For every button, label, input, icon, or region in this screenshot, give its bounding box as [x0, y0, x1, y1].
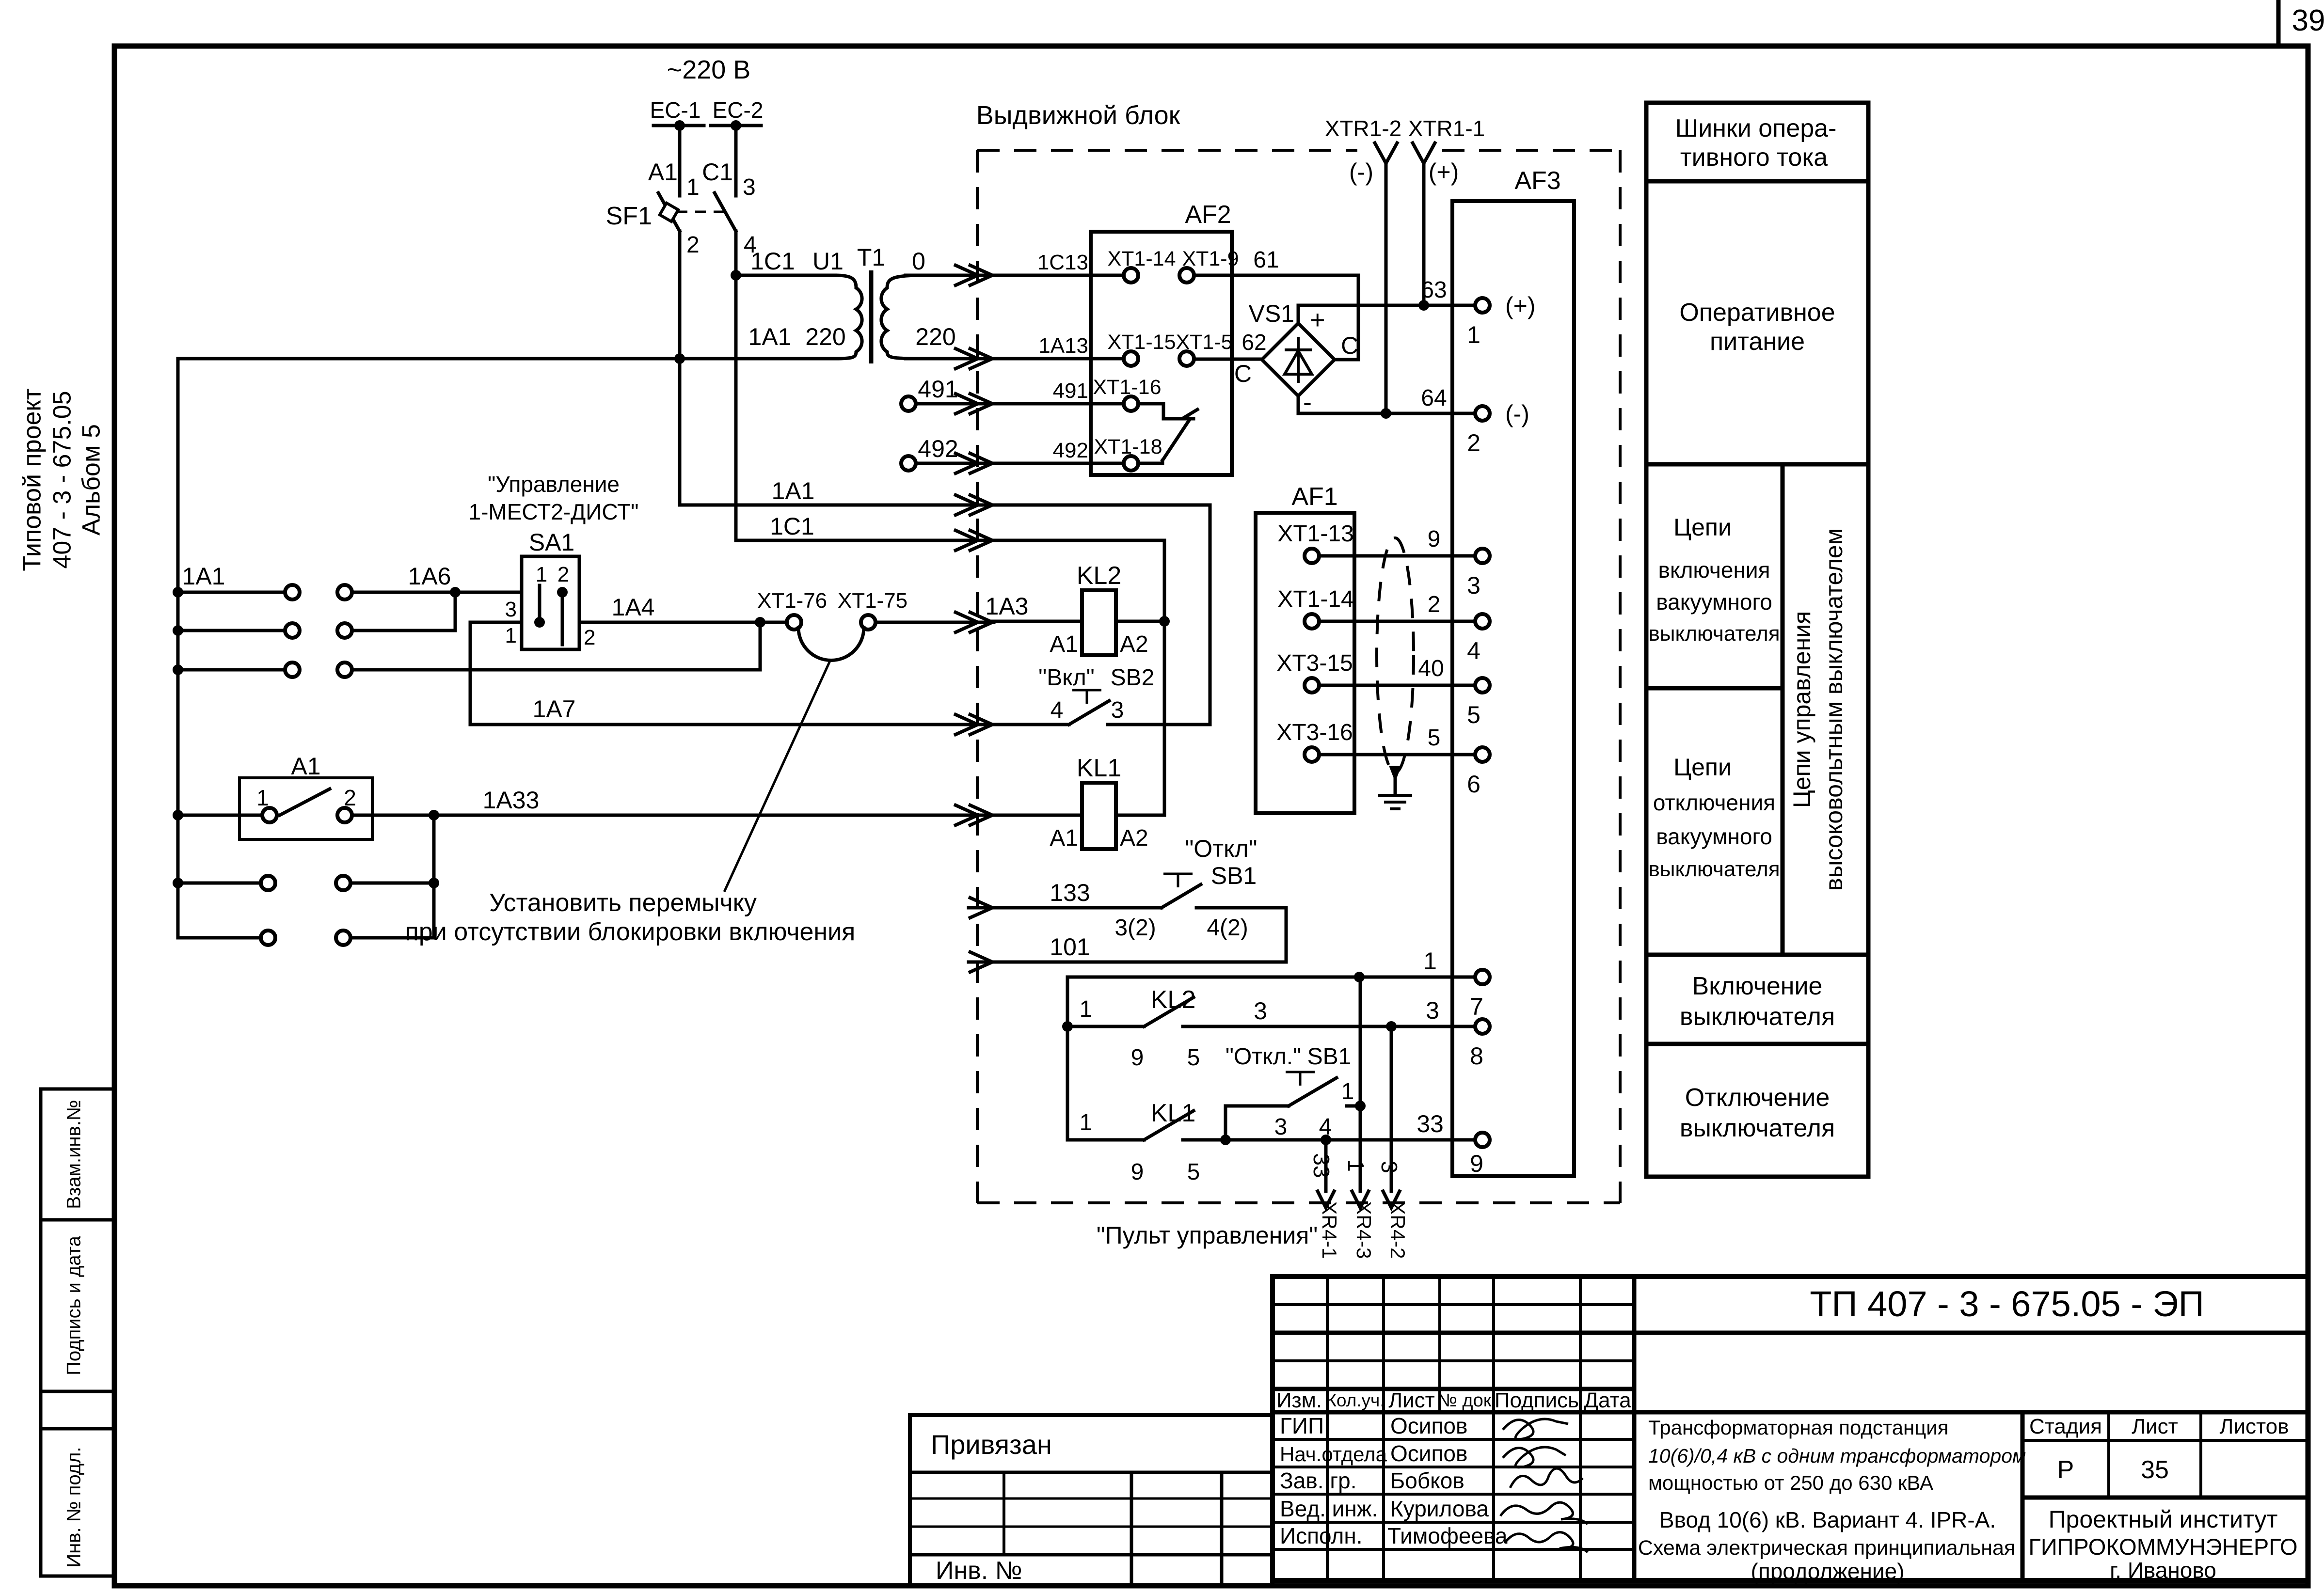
- svg-text:1: 1: [536, 563, 547, 586]
- wire KL1 A2: [1116, 814, 1164, 817]
- button SB2 head: [1072, 690, 1101, 704]
- svg-text:(продолжение): (продолжение): [1751, 1559, 1905, 1584]
- svg-text:Нач.отдела: Нач.отдела: [1280, 1443, 1387, 1466]
- svg-text:220: 220: [915, 323, 955, 350]
- svg-text:ТП 407 - 3 - 675.05 - ЭП: ТП 407 - 3 - 675.05 - ЭП: [1810, 1284, 2204, 1324]
- svg-text:1А1: 1А1: [772, 477, 815, 505]
- svg-text:Выдвижной блок: Выдвижной блок: [976, 101, 1180, 130]
- svg-text:XR4-1: XR4-1: [1318, 1201, 1341, 1259]
- svg-text:Осипов: Осипов: [1390, 1413, 1467, 1438]
- svg-text:ГИПРОКОММУНЭНЕРГО: ГИПРОКОММУНЭНЕРГО: [2028, 1534, 2297, 1560]
- svg-text:С: С: [1341, 332, 1358, 359]
- wire pole A down: [678, 231, 682, 505]
- svg-text:Осипов: Осипов: [1390, 1441, 1467, 1466]
- svg-text:Курилова: Курилова: [1390, 1496, 1489, 1521]
- net1 row wire: [1067, 976, 1475, 979]
- wire XT1-18 stub: [1138, 462, 1162, 465]
- svg-text:С: С: [1234, 360, 1252, 387]
- block AF3: [1452, 201, 1574, 1176]
- svg-text:ХТ1-16: ХТ1-16: [1093, 376, 1161, 399]
- svg-text:№ док.: № док.: [1437, 1390, 1496, 1411]
- svg-text:AF1: AF1: [1291, 483, 1337, 511]
- terminal 491: [901, 396, 916, 411]
- svg-text:9: 9: [1131, 1045, 1144, 1071]
- terminal 492: [901, 456, 916, 471]
- svg-text:"Откл": "Откл": [1185, 835, 1258, 862]
- 1C1 net vertical: [1163, 540, 1166, 815]
- page number cell line: [2276, 0, 2281, 46]
- svg-text:AF3: AF3: [1514, 167, 1560, 195]
- terminal XT1-9: [1179, 268, 1194, 283]
- terminal 1 plus: [1475, 298, 1490, 313]
- aux contact in AF2: [1138, 404, 1194, 419]
- svg-text:ЕС-2: ЕС-2: [713, 97, 764, 123]
- signature squiggles: [1503, 1419, 1568, 1439]
- corner 1C1 wire to vertical: [992, 539, 1164, 542]
- terminal XT1-15: [1124, 351, 1138, 366]
- svg-text:1: 1: [1423, 947, 1437, 975]
- svg-text:1: 1: [1080, 1110, 1093, 1136]
- svg-text:ХТ1-14: ХТ1-14: [1107, 247, 1176, 270]
- wire 101: [969, 961, 1286, 964]
- svg-text:6: 6: [1467, 771, 1480, 798]
- svg-text:407 - 3 - 675.05: 407 - 3 - 675.05: [48, 391, 77, 568]
- svg-text:9: 9: [1131, 1159, 1144, 1185]
- right info table frame: [1646, 103, 1868, 1177]
- svg-text:39: 39: [2292, 4, 2324, 37]
- svg-text:Исполн.: Исполн.: [1280, 1523, 1363, 1548]
- svg-text:3: 3: [505, 598, 517, 621]
- svg-text:33: 33: [1417, 1110, 1444, 1137]
- block AF2: [1091, 232, 1232, 475]
- svg-text:33: 33: [1309, 1153, 1334, 1178]
- wire A1 phase down to SF1: [678, 126, 682, 196]
- SB1 lower blade: [1289, 1078, 1337, 1106]
- svg-text:XR4-2: XR4-2: [1386, 1201, 1409, 1259]
- wire 492: [916, 462, 994, 465]
- svg-text:выключателя: выключателя: [1648, 622, 1780, 646]
- terminal 6: [1475, 747, 1490, 762]
- wire 1C1 to transformer: [736, 274, 835, 277]
- row2 contact pair: [173, 625, 183, 636]
- svg-text:выключателя: выключателя: [1680, 1114, 1835, 1142]
- svg-text:61: 61: [1253, 247, 1279, 273]
- svg-text:А1: А1: [291, 753, 320, 780]
- svg-text:1: 1: [1080, 996, 1093, 1022]
- svg-text:Установить перемычку: Установить перемычку: [489, 889, 757, 917]
- svg-text:~220 В: ~220 В: [667, 55, 751, 84]
- svg-text:3: 3: [1254, 997, 1267, 1025]
- svg-text:1А6: 1А6: [408, 563, 451, 590]
- wire XTR1-1 down: [1422, 163, 1426, 305]
- jumper arc: [798, 628, 864, 661]
- svg-text:высоковольтным выключателем: высоковольтным выключателем: [1820, 528, 1847, 891]
- svg-text:(+): (+): [1505, 292, 1536, 319]
- svg-text:1-МЕСТ2-ДИСТ": 1-МЕСТ2-ДИСТ": [469, 499, 639, 524]
- svg-text:10(6)/0,4 кВ с одним трансформ: 10(6)/0,4 кВ с одним трансформатором: [1648, 1445, 2026, 1467]
- svg-text:3: 3: [1467, 572, 1480, 599]
- svg-text:1С1: 1С1: [770, 513, 814, 540]
- svg-text:Привязан: Привязан: [931, 1429, 1052, 1460]
- svg-text:1А13: 1А13: [1038, 334, 1088, 358]
- svg-text:XR4-3: XR4-3: [1353, 1201, 1375, 1259]
- switch SA1 box: [522, 556, 579, 649]
- svg-text:Цепи: Цепи: [1673, 514, 1732, 541]
- svg-text:1А7: 1А7: [533, 695, 576, 723]
- terminal XT1-18: [1124, 456, 1138, 471]
- svg-text:SA1: SA1: [529, 529, 575, 556]
- svg-text:3: 3: [1377, 1161, 1402, 1173]
- svg-text:SB1: SB1: [1307, 1044, 1352, 1070]
- terminal XT1-16: [1124, 396, 1138, 411]
- button SB2 blade: [1069, 701, 1109, 725]
- svg-text:Проектный институт: Проектный институт: [2049, 1506, 2278, 1533]
- wire 1A33 to KL1: [992, 814, 1082, 817]
- drawout block dashed border right: [1619, 150, 1622, 1203]
- svg-text:3: 3: [1426, 997, 1439, 1024]
- svg-text:XTR1-2: XTR1-2: [1325, 116, 1401, 141]
- drawout block dashed border top: [977, 149, 1620, 152]
- bus EC-2: [711, 124, 761, 127]
- callout line: [724, 661, 830, 892]
- svg-text:Включение: Включение: [1692, 972, 1823, 1000]
- svg-text:мощностью от 250 до 630 кВА: мощностью от 250 до 630 кВА: [1648, 1471, 1933, 1494]
- breaker SF1 square on blade: [660, 203, 678, 221]
- svg-text:г. Иваново: г. Иваново: [2110, 1558, 2216, 1583]
- svg-text:KL2: KL2: [1077, 562, 1122, 590]
- breaker SF1 linkage dashed: [677, 211, 727, 213]
- Стадия Лист Листов header: [2021, 1412, 2025, 1580]
- svg-text:40: 40: [1418, 656, 1444, 681]
- svg-text:1: 1: [1467, 321, 1480, 348]
- XR4-2 drop wire: [1390, 1026, 1393, 1191]
- svg-text:492: 492: [918, 435, 958, 462]
- SB2 fixed side wire: [1108, 723, 1210, 726]
- svg-text:Оперативное: Оперативное: [1679, 299, 1835, 327]
- svg-text:133: 133: [1050, 879, 1090, 906]
- svg-text:1А33: 1А33: [483, 787, 540, 814]
- svg-text:А2: А2: [1120, 631, 1148, 657]
- junction 1C1 tap: [731, 270, 741, 281]
- svg-text:8: 8: [1470, 1042, 1483, 1070]
- svg-text:Бобков: Бобков: [1390, 1468, 1464, 1493]
- svg-text:Ввод 10(6) кВ. Вариант 4. IPR-: Ввод 10(6) кВ. Вариант 4. IPR-A.: [1659, 1507, 1996, 1532]
- connector XTR1-1 fork: [1413, 143, 1435, 163]
- svg-text:включения: включения: [1658, 557, 1770, 583]
- svg-text:Шинки опера-: Шинки опера-: [1675, 114, 1837, 142]
- svg-text:1А3: 1А3: [986, 593, 1029, 620]
- row5 contact pair: [173, 878, 183, 888]
- svg-text:ХТ1-75: ХТ1-75: [838, 589, 907, 613]
- drawout block dashed border bottom: [977, 1201, 1620, 1204]
- svg-text:отключения: отключения: [1653, 790, 1775, 815]
- drawout block dashed border left: [976, 150, 979, 1203]
- svg-text:выключателя: выключателя: [1648, 857, 1780, 881]
- button SB1 upper head: [1163, 874, 1193, 887]
- svg-text:питание: питание: [1710, 328, 1805, 356]
- wire KL2 A2 to 1C1 vertical: [1116, 620, 1164, 623]
- svg-text:3: 3: [1274, 1114, 1288, 1140]
- svg-text:Подпись и дата: Подпись и дата: [64, 1235, 85, 1375]
- connector XR4-2 fork: [1383, 1191, 1400, 1208]
- svg-text:64: 64: [1421, 385, 1447, 411]
- svg-text:2: 2: [1428, 592, 1441, 617]
- svg-text:4(2): 4(2): [1207, 915, 1248, 941]
- svg-text:4: 4: [1051, 697, 1064, 723]
- wire 1A33: [352, 814, 994, 817]
- svg-text:вакуумного: вакуумного: [1656, 589, 1772, 615]
- svg-text:1: 1: [1343, 1159, 1369, 1172]
- svg-text:ХТ1-13: ХТ1-13: [1277, 521, 1353, 547]
- svg-text:1: 1: [1341, 1079, 1354, 1104]
- svg-text:А1: А1: [1050, 825, 1078, 851]
- junction on 1A1 horizontal: [674, 353, 685, 364]
- transformer T1 primary winding: [835, 275, 862, 359]
- svg-text:Зав. гр.: Зав. гр.: [1280, 1468, 1357, 1493]
- svg-text:Вед. инж.: Вед. инж.: [1280, 1496, 1378, 1521]
- connector XR4-1 fork: [1318, 1191, 1334, 1208]
- svg-text:Трансформаторная подстанция: Трансформаторная подстанция: [1648, 1416, 1949, 1439]
- terminal 8: [1475, 1019, 1490, 1034]
- svg-text:5: 5: [1187, 1159, 1200, 1185]
- row3 contact pair: [173, 664, 183, 675]
- svg-text:ХТ1-14: ХТ1-14: [1277, 586, 1353, 612]
- svg-text:ХТ3-16: ХТ3-16: [1276, 720, 1353, 745]
- svg-text:ХТ1-18: ХТ1-18: [1094, 435, 1162, 458]
- svg-text:Тимофеева: Тимофеева: [1387, 1523, 1508, 1548]
- wire XTR1-2 down: [1385, 163, 1388, 413]
- svg-text:С1: С1: [702, 158, 733, 186]
- svg-text:Кол.уч.: Кол.уч.: [1326, 1390, 1385, 1410]
- wire 9: [1319, 554, 1475, 558]
- svg-text:SB1: SB1: [1211, 862, 1257, 889]
- bridge rectifier VS1: [1262, 323, 1335, 396]
- SA1 position line 1: [538, 585, 541, 622]
- svg-text:SF1: SF1: [606, 202, 652, 230]
- svg-text:тивного тока: тивного тока: [1680, 143, 1828, 172]
- revision table horizontals: [1273, 1303, 1634, 1306]
- svg-text:Отключение: Отключение: [1685, 1084, 1830, 1112]
- svg-text:А1: А1: [1050, 631, 1078, 657]
- svg-text:А1: А1: [648, 158, 678, 186]
- terminal XT1-5: [1179, 351, 1194, 366]
- svg-text:Т1: Т1: [857, 244, 885, 271]
- svg-text:ХТ1-5: ХТ1-5: [1176, 331, 1232, 354]
- title block outer: [1273, 1277, 2308, 1580]
- svg-text:VS1: VS1: [1248, 300, 1294, 327]
- svg-text:Подпись: Подпись: [1495, 1388, 1579, 1412]
- svg-text:3: 3: [743, 174, 756, 200]
- svg-text:(+): (+): [1429, 158, 1459, 186]
- wire 61: [1194, 275, 1358, 360]
- svg-text:5: 5: [1428, 725, 1441, 751]
- 1A1 net vertical: [992, 505, 1210, 725]
- svg-text:491: 491: [918, 376, 958, 403]
- A1 blade: [280, 789, 330, 815]
- button SB1 lower head: [1286, 1072, 1315, 1086]
- svg-text:"Пульт управления": "Пульт управления": [1097, 1222, 1318, 1249]
- wire 1A3: [992, 620, 1082, 623]
- relay coil KL1: [1082, 783, 1116, 849]
- limit switch A1 box: [239, 778, 372, 839]
- wire 1A1 branch: [680, 504, 994, 507]
- svg-text:Взам.инв.№: Взам.инв.№: [64, 1100, 85, 1209]
- svg-text:SB2: SB2: [1111, 665, 1155, 691]
- contact KL1: [1067, 1138, 1144, 1142]
- svg-text:KL1: KL1: [1077, 754, 1122, 782]
- terminal 4: [1475, 614, 1490, 629]
- SB1 lower fixed stub: [1347, 1104, 1360, 1108]
- wire 64: [1298, 396, 1475, 413]
- svg-text:Лист: Лист: [2132, 1415, 2178, 1438]
- wire 2: [1319, 620, 1475, 623]
- SB1 upper blade: [1162, 884, 1201, 908]
- bus EC-1: [653, 124, 704, 127]
- svg-text:+: +: [1310, 305, 1325, 334]
- terminal 2 minus: [1475, 406, 1490, 421]
- svg-text:AF2: AF2: [1185, 201, 1231, 229]
- transformer T1 core: [869, 270, 874, 363]
- Привязан table: [910, 1415, 1273, 1586]
- A1 contact circles: [262, 808, 277, 822]
- svg-text:при отсутствии блокировки вклю: при отсутствии блокировки включения: [405, 918, 856, 946]
- svg-text:Стадия: Стадия: [2029, 1415, 2102, 1438]
- svg-text:62: 62: [1242, 330, 1266, 355]
- terminal 5: [1475, 678, 1490, 693]
- svg-text:35: 35: [2141, 1456, 2169, 1484]
- A1 row wire left: [173, 810, 183, 820]
- svg-text:XTR1-1: XTR1-1: [1408, 116, 1485, 141]
- svg-text:3: 3: [1111, 697, 1124, 723]
- wire 1A4: [579, 621, 753, 624]
- terminal 9: [1475, 1133, 1490, 1147]
- wire 133: [969, 906, 1162, 910]
- transformer T1 secondary winding: [881, 275, 922, 359]
- left bus vertical: [176, 359, 180, 938]
- svg-text:220: 220: [805, 323, 845, 350]
- ground symbol: [1390, 767, 1400, 779]
- terminal XT1-14: [1124, 268, 1138, 283]
- wire SA1 to 1A7 loop: [470, 622, 994, 725]
- svg-text:ХТ1-76: ХТ1-76: [757, 589, 827, 613]
- wire 1A1 horizontal: [178, 357, 835, 361]
- wire 1C13 row into AF2: [992, 274, 1124, 277]
- svg-text:0: 0: [912, 248, 925, 275]
- svg-text:7: 7: [1470, 993, 1483, 1020]
- revision table verticals: [1326, 1277, 1329, 1580]
- svg-text:"Откл.": "Откл.": [1226, 1044, 1301, 1070]
- svg-text:Дата: Дата: [1584, 1388, 1631, 1412]
- svg-text:Альбом 5: Альбом 5: [78, 424, 106, 536]
- svg-text:Цепи управления: Цепи управления: [1788, 611, 1815, 808]
- wire 491 row into AF2: [992, 402, 1124, 406]
- svg-text:1С13: 1С13: [1037, 251, 1088, 274]
- svg-text:U1: U1: [812, 248, 844, 275]
- svg-text:1А4: 1А4: [612, 594, 655, 621]
- wire 1A7 to SB2: [992, 723, 1069, 726]
- svg-text:Изм.: Изм.: [1276, 1388, 1322, 1412]
- svg-text:вакуумного: вакуумного: [1656, 824, 1772, 849]
- relay coil KL2: [1082, 590, 1116, 655]
- contact KL2: [1067, 1025, 1144, 1028]
- svg-text:ХТ1-15: ХТ1-15: [1107, 331, 1176, 354]
- svg-text:101: 101: [1050, 933, 1090, 961]
- wire 63: [1298, 305, 1475, 323]
- wire 5: [1319, 753, 1475, 757]
- svg-text:Инв. №: Инв. №: [936, 1557, 1022, 1585]
- terminal 7: [1475, 970, 1490, 984]
- wire C1 phase down to SF1: [734, 126, 738, 196]
- svg-text:9: 9: [1470, 1150, 1483, 1177]
- svg-text:4: 4: [1467, 637, 1480, 664]
- wire 491: [916, 402, 994, 406]
- wire 492 row into AF2: [992, 462, 1124, 465]
- wire 1C1 branch: [736, 539, 994, 542]
- cable screen ellipse: [1377, 538, 1414, 773]
- SB1 upper fixed wire to 101: [1196, 908, 1286, 962]
- wire 40: [1319, 684, 1475, 687]
- svg-text:1: 1: [686, 174, 700, 200]
- left margin stamp boxes: [41, 1089, 114, 1576]
- svg-text:1С1: 1С1: [750, 248, 795, 275]
- connector XR4-3 fork: [1352, 1191, 1369, 1208]
- breaker SF1 pole A blade: [658, 193, 680, 231]
- XR4-3 drop wire: [1359, 977, 1362, 1191]
- svg-text:491: 491: [1053, 379, 1088, 403]
- svg-text:2: 2: [557, 563, 569, 586]
- wire pole C down: [734, 231, 738, 540]
- svg-text:5: 5: [1467, 701, 1480, 728]
- block AF1: [1256, 513, 1354, 813]
- SB1 lower branch from KL1 row: [1226, 1106, 1289, 1140]
- jumper wire segments: [760, 621, 787, 624]
- svg-text:Типовой проект: Типовой проект: [18, 388, 47, 571]
- svg-text:ХТ1-9: ХТ1-9: [1182, 247, 1239, 270]
- svg-text:ХТ3-15: ХТ3-15: [1276, 650, 1353, 676]
- svg-text:ГИП: ГИП: [1280, 1413, 1324, 1438]
- SA1 position line 2: [561, 592, 564, 645]
- wire 0 to block: [906, 274, 994, 277]
- svg-text:"Вкл": "Вкл": [1038, 665, 1095, 691]
- breaker SF1 pole C blade: [715, 193, 736, 231]
- row5-A1 link vertical: [432, 815, 436, 883]
- wire 62: [1194, 358, 1262, 361]
- svg-text:(-): (-): [1349, 158, 1373, 186]
- wire 1A13 row into AF2: [992, 357, 1124, 361]
- terminal 3: [1475, 549, 1490, 563]
- svg-text:Цепи: Цепи: [1673, 754, 1732, 781]
- svg-text:3(2): 3(2): [1114, 915, 1156, 941]
- svg-text:(-): (-): [1505, 400, 1529, 427]
- svg-text:Лист: Лист: [1388, 1388, 1435, 1412]
- wire 220 to block: [906, 357, 994, 361]
- XR4-1 drop wire: [1324, 1140, 1328, 1191]
- svg-text:2: 2: [584, 626, 595, 649]
- svg-text:1: 1: [505, 624, 517, 647]
- svg-text:Схема электрическая принципиал: Схема электрическая принципиальная: [1638, 1536, 2015, 1560]
- svg-text:2: 2: [686, 232, 700, 258]
- svg-text:Р: Р: [2057, 1456, 2074, 1484]
- svg-text:9: 9: [1428, 526, 1441, 552]
- svg-text:63: 63: [1421, 277, 1447, 303]
- svg-text:492: 492: [1053, 439, 1088, 462]
- row1 contact pair: [173, 587, 183, 598]
- net1 left vertical: [1066, 977, 1069, 1140]
- svg-text:ЕС-1: ЕС-1: [650, 97, 701, 123]
- VS1 diode symbol: [1285, 337, 1312, 383]
- svg-text:Инв. № подл.: Инв. № подл.: [64, 1447, 85, 1567]
- row6 contact pair: [178, 883, 261, 938]
